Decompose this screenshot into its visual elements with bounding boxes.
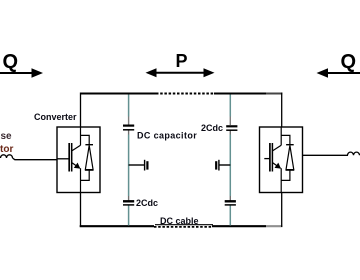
svg-text:tor: tor	[0, 144, 13, 155]
svg-text:DC cable: DC cable	[160, 216, 199, 226]
svg-text:2Cdc: 2Cdc	[201, 123, 223, 133]
svg-text:2Cdc: 2Cdc	[136, 198, 158, 208]
svg-text:P: P	[176, 51, 188, 71]
svg-text:DC capacitor: DC capacitor	[137, 131, 197, 141]
svg-text:Converter: Converter	[34, 112, 77, 122]
svg-text:se: se	[1, 131, 13, 142]
svg-text:Q: Q	[3, 51, 19, 73]
svg-text:Q: Q	[341, 51, 357, 73]
